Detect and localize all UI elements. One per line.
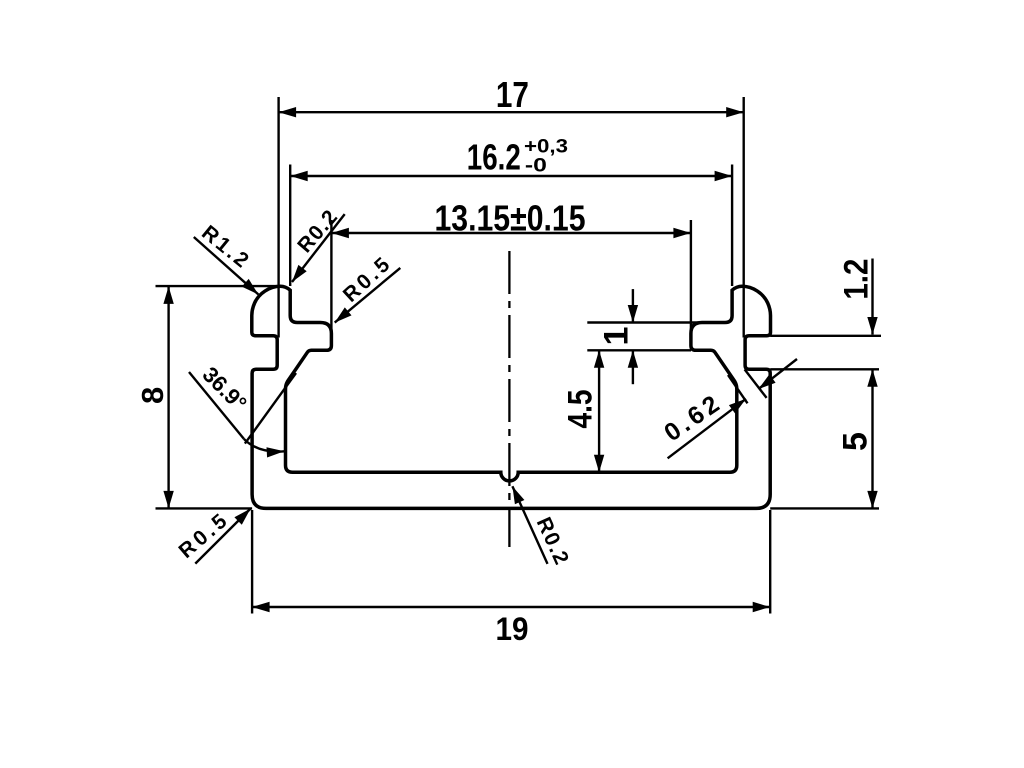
svg-text:19: 19 (496, 611, 529, 647)
svg-text:+0,3: +0,3 (524, 137, 568, 158)
svg-text:5: 5 (836, 432, 874, 451)
svg-text:13.15±0.15: 13.15±0.15 (435, 198, 586, 239)
svg-text:4.5: 4.5 (562, 390, 600, 429)
svg-text:8: 8 (135, 387, 170, 404)
svg-text:1: 1 (597, 327, 635, 346)
svg-text:17: 17 (496, 74, 529, 115)
svg-text:16.2: 16.2 (467, 137, 521, 178)
svg-text:-0: -0 (525, 156, 547, 177)
svg-text:1.2: 1.2 (838, 259, 876, 300)
